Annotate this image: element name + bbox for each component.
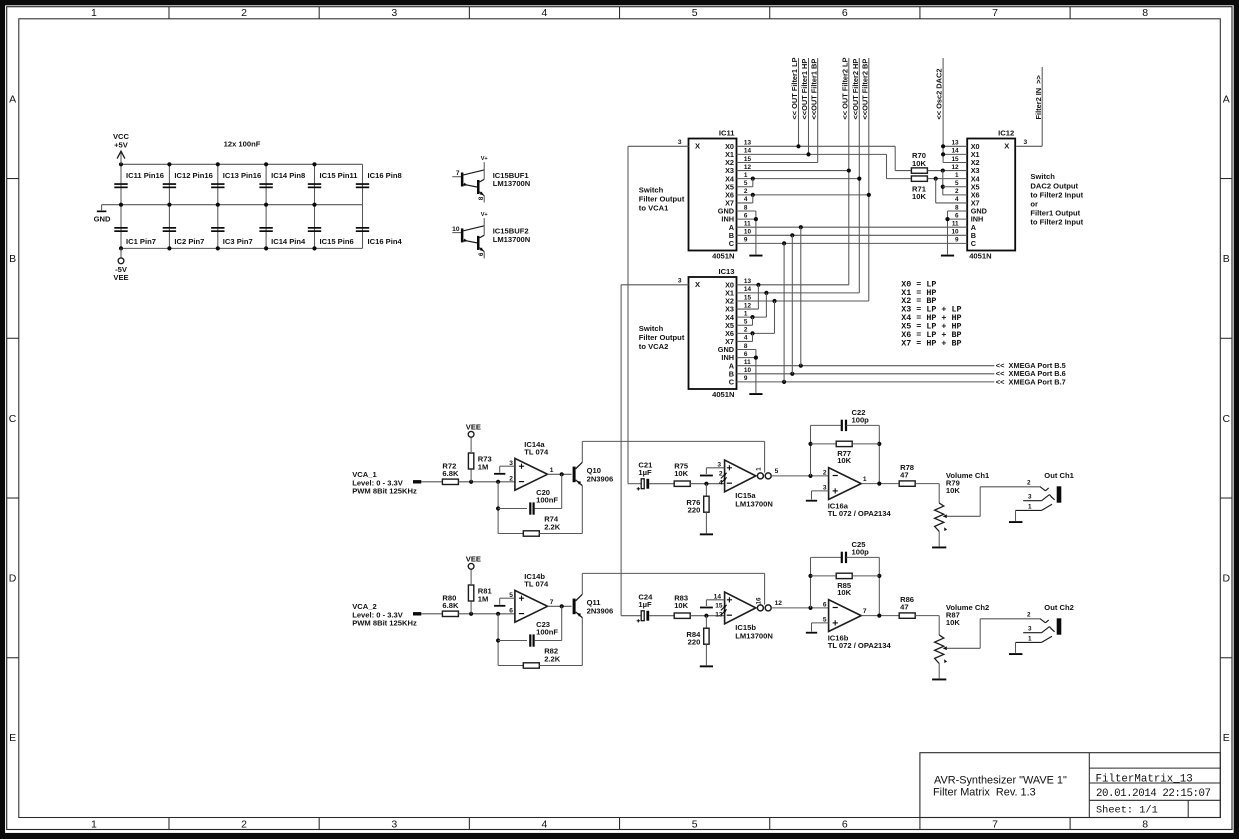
svg-text:to Filter2 Input: to Filter2 Input (1030, 190, 1083, 199)
svg-text:X: X (1004, 141, 1009, 150)
svg-text:2N3906: 2N3906 (587, 475, 614, 484)
svg-text:12x 100nF: 12x 100nF (224, 140, 261, 149)
svg-text:5: 5 (955, 180, 959, 187)
svg-text:FilterMatrix_13: FilterMatrix_13 (1096, 773, 1193, 785)
svg-text:IC15 Pin11: IC15 Pin11 (320, 171, 359, 180)
svg-text:IC14 Pin4: IC14 Pin4 (271, 237, 306, 246)
svg-text:LM13700N: LM13700N (493, 179, 531, 188)
svg-text:12: 12 (744, 164, 752, 171)
svg-text:IC12 Pin16: IC12 Pin16 (174, 171, 212, 180)
svg-text:10K: 10K (674, 601, 688, 610)
svg-text:10K: 10K (946, 618, 960, 627)
svg-text:GND: GND (94, 214, 111, 223)
svg-text:C: C (971, 239, 977, 248)
svg-text:Filter Output: Filter Output (639, 194, 685, 203)
svg-text:C: C (9, 413, 17, 425)
svg-text:6: 6 (823, 601, 827, 608)
svg-text:or: or (1030, 200, 1038, 209)
svg-text:10: 10 (744, 367, 752, 374)
svg-text:12: 12 (744, 302, 752, 309)
svg-text:to VCA1: to VCA1 (639, 203, 669, 212)
svg-text:C: C (729, 377, 735, 386)
svg-text:10K: 10K (912, 159, 926, 168)
svg-text:100p: 100p (852, 547, 870, 556)
svg-text:13: 13 (951, 140, 959, 147)
svg-text:8: 8 (1142, 7, 1148, 19)
svg-text:1: 1 (755, 467, 762, 471)
svg-text:10K: 10K (946, 486, 960, 495)
svg-text:IC13: IC13 (718, 267, 734, 276)
svg-text:10K: 10K (837, 456, 851, 465)
svg-text:VEE: VEE (113, 273, 128, 282)
svg-text:IC1 Pin7: IC1 Pin7 (126, 237, 156, 246)
svg-text:VEE: VEE (466, 423, 481, 432)
svg-text:10K: 10K (674, 469, 688, 478)
svg-text:1: 1 (1028, 635, 1032, 642)
svg-text:8: 8 (744, 343, 748, 350)
svg-text:Filter Output: Filter Output (639, 333, 685, 342)
svg-text:2.2K: 2.2K (544, 654, 561, 663)
svg-text:8: 8 (1142, 819, 1148, 831)
svg-text:13: 13 (744, 140, 752, 147)
svg-text:10: 10 (951, 229, 959, 236)
svg-text:13: 13 (744, 278, 752, 285)
svg-text:11: 11 (744, 359, 751, 366)
svg-text:12: 12 (775, 600, 783, 607)
svg-text:1: 1 (550, 467, 554, 474)
svg-text:3: 3 (1028, 494, 1032, 501)
svg-text:6: 6 (955, 212, 959, 219)
svg-text:5: 5 (775, 468, 779, 475)
svg-text:8: 8 (477, 197, 484, 201)
svg-text:X7 = HP + BP: X7 = HP + BP (901, 339, 961, 349)
svg-text:3: 3 (391, 819, 397, 831)
svg-text:<<OUT Filter1 HP: <<OUT Filter1 HP (800, 59, 809, 120)
svg-text:7: 7 (992, 819, 998, 831)
svg-text:+5V: +5V (114, 140, 129, 149)
svg-text:12: 12 (951, 164, 959, 171)
svg-text:1: 1 (744, 172, 748, 179)
svg-text:47: 47 (900, 602, 908, 611)
svg-text:3: 3 (678, 278, 682, 285)
svg-text:3: 3 (1028, 626, 1032, 633)
svg-text:2: 2 (241, 819, 247, 831)
svg-text:14: 14 (951, 148, 959, 155)
svg-text:100p: 100p (852, 415, 870, 424)
svg-text:2: 2 (509, 475, 513, 482)
svg-text:6.8K: 6.8K (442, 469, 459, 478)
svg-text:6.8K: 6.8K (442, 601, 459, 610)
svg-text:5: 5 (744, 319, 748, 326)
svg-text:A: A (9, 93, 16, 105)
svg-text:<< Osc2 DAC2: << Osc2 DAC2 (935, 69, 944, 120)
svg-text:1: 1 (744, 310, 748, 317)
svg-text:TL 074: TL 074 (524, 580, 549, 589)
svg-text:A: A (1223, 93, 1230, 105)
svg-text:B: B (1223, 253, 1230, 265)
svg-text:10K: 10K (837, 588, 851, 597)
svg-text:Switch: Switch (639, 324, 664, 333)
svg-text:4051N: 4051N (712, 390, 734, 399)
svg-text:IC11: IC11 (719, 128, 735, 137)
svg-text:IC16 Pin8: IC16 Pin8 (368, 171, 402, 180)
svg-text:X: X (695, 280, 700, 289)
svg-text:E: E (9, 732, 16, 744)
svg-text:<<OUT Filter2 HP: <<OUT Filter2 HP (851, 59, 860, 120)
svg-text:Out Ch2: Out Ch2 (1044, 603, 1074, 612)
svg-text:4: 4 (542, 7, 548, 19)
svg-text:7: 7 (992, 7, 998, 19)
svg-text:4: 4 (744, 196, 748, 203)
svg-text:9: 9 (955, 237, 959, 244)
svg-text:Filter2 IN >>: Filter2 IN >> (1034, 74, 1043, 119)
svg-text:1M: 1M (478, 594, 489, 603)
svg-text:1: 1 (91, 7, 97, 19)
svg-text:AVR-Synthesizer "WAVE 1": AVR-Synthesizer "WAVE 1" (934, 775, 1067, 787)
svg-text:1µF: 1µF (638, 600, 652, 609)
svg-text:TL 074: TL 074 (524, 448, 549, 457)
svg-text:IC13 Pin16: IC13 Pin16 (223, 171, 261, 180)
svg-text:6: 6 (744, 351, 748, 358)
svg-text:2.2K: 2.2K (544, 522, 561, 531)
svg-text:LM13700N: LM13700N (735, 499, 773, 508)
svg-text:<<OUT Filter2 BP: <<OUT Filter2 BP (860, 59, 869, 120)
svg-text:Switch: Switch (639, 186, 664, 195)
svg-text:220: 220 (688, 638, 701, 647)
svg-text:Switch: Switch (1030, 172, 1055, 181)
svg-text:LM13700N: LM13700N (735, 631, 773, 640)
svg-text:IC12: IC12 (998, 128, 1014, 137)
svg-text:E: E (1223, 732, 1230, 744)
svg-text:PWM 8Bit 125KHz: PWM 8Bit 125KHz (352, 487, 417, 496)
svg-text:PWM 8Bit 125KHz: PWM 8Bit 125KHz (352, 619, 417, 628)
svg-text:15: 15 (715, 602, 723, 609)
svg-text:B: B (9, 253, 16, 265)
svg-text:3: 3 (717, 461, 721, 468)
svg-text:1: 1 (955, 172, 959, 179)
svg-text:C: C (729, 239, 735, 248)
svg-text:16: 16 (755, 597, 762, 604)
svg-text:LM13700N: LM13700N (493, 235, 531, 244)
svg-text:IC15 Pin6: IC15 Pin6 (320, 237, 354, 246)
svg-text:2: 2 (823, 469, 827, 476)
svg-text:IC14 Pin8: IC14 Pin8 (271, 171, 305, 180)
svg-text:3: 3 (678, 139, 682, 146)
svg-text:6: 6 (842, 7, 848, 19)
svg-text:1µF: 1µF (638, 468, 652, 477)
svg-text:7: 7 (550, 599, 554, 606)
svg-text:14: 14 (714, 593, 722, 600)
svg-text:Filter Matrix Rev. 1.3: Filter Matrix Rev. 1.3 (933, 786, 1036, 798)
svg-text:47: 47 (900, 470, 908, 479)
svg-text:11: 11 (744, 221, 751, 228)
svg-text:15: 15 (744, 294, 752, 301)
svg-text:<< OUT Filter1 LP: << OUT Filter1 LP (790, 57, 799, 119)
svg-text:4: 4 (542, 819, 548, 831)
svg-text:2: 2 (1027, 611, 1031, 618)
svg-text:D: D (1223, 572, 1231, 584)
svg-text:8: 8 (955, 204, 959, 211)
svg-text:220: 220 (688, 506, 701, 515)
svg-text:11: 11 (952, 221, 959, 228)
svg-text:9: 9 (744, 237, 748, 244)
svg-text:6: 6 (842, 819, 848, 831)
svg-text:2: 2 (744, 188, 748, 195)
svg-text:1: 1 (91, 819, 97, 831)
svg-text:4: 4 (744, 335, 748, 342)
svg-text:Out Ch1: Out Ch1 (1044, 471, 1074, 480)
svg-text:9: 9 (477, 253, 484, 257)
svg-text:4: 4 (955, 196, 959, 203)
svg-text:7: 7 (863, 608, 867, 615)
svg-text:1M: 1M (478, 462, 489, 471)
svg-text:20.01.2014 22:15:07: 20.01.2014 22:15:07 (1096, 788, 1211, 800)
svg-text:3: 3 (1024, 139, 1028, 146)
svg-text:4051N: 4051N (969, 252, 991, 261)
svg-text:VEE: VEE (466, 555, 481, 564)
svg-text:IC11 Pin16: IC11 Pin16 (126, 171, 164, 180)
svg-text:V+: V+ (481, 156, 489, 162)
svg-text:9: 9 (744, 375, 748, 382)
svg-text:to VCA2: to VCA2 (639, 342, 669, 351)
svg-text:5: 5 (692, 7, 698, 19)
svg-text:5: 5 (744, 180, 748, 187)
svg-text:4051N: 4051N (712, 252, 734, 261)
svg-text:100nF: 100nF (536, 627, 558, 636)
svg-text:V+: V+ (481, 212, 489, 218)
svg-text:8: 8 (744, 204, 748, 211)
svg-text:10: 10 (452, 226, 460, 233)
svg-text:14: 14 (744, 148, 752, 155)
svg-text:<< XMEGA Port B.7: << XMEGA Port B.7 (996, 377, 1066, 386)
svg-text:6: 6 (509, 607, 513, 614)
svg-text:2N3906: 2N3906 (587, 607, 614, 616)
svg-text:10K: 10K (912, 192, 926, 201)
svg-text:<<OUT Filter1 BP: <<OUT Filter1 BP (809, 59, 818, 120)
svg-text:IC2 Pin7: IC2 Pin7 (174, 237, 204, 246)
svg-text:Sheet: 1/1: Sheet: 1/1 (1096, 805, 1158, 817)
svg-text:TL 072 / OPA2134: TL 072 / OPA2134 (828, 641, 892, 650)
svg-text:1: 1 (1028, 503, 1032, 510)
svg-text:3: 3 (391, 7, 397, 19)
svg-text:2: 2 (744, 327, 748, 334)
svg-text:IC3 Pin7: IC3 Pin7 (223, 237, 253, 246)
svg-text:2: 2 (241, 7, 247, 19)
svg-text:<< OUT Filter2 LP: << OUT Filter2 LP (840, 57, 849, 119)
svg-text:2: 2 (955, 188, 959, 195)
svg-text:7: 7 (456, 170, 460, 177)
svg-text:C: C (1223, 413, 1231, 425)
svg-text:X: X (695, 141, 700, 150)
svg-text:15: 15 (744, 156, 752, 163)
svg-text:10: 10 (744, 229, 752, 236)
svg-text:TL 072 / OPA2134: TL 072 / OPA2134 (828, 509, 892, 518)
svg-text:1: 1 (863, 476, 867, 483)
svg-text:6: 6 (744, 212, 748, 219)
svg-text:to Filter2 Input: to Filter2 Input (1030, 218, 1083, 227)
svg-text:IC16 Pin4: IC16 Pin4 (368, 237, 403, 246)
svg-text:100nF: 100nF (536, 495, 558, 504)
svg-text:DAC2 Output: DAC2 Output (1030, 181, 1078, 190)
svg-text:Filter1 Output: Filter1 Output (1030, 209, 1080, 218)
svg-text:15: 15 (951, 156, 959, 163)
svg-text:5: 5 (692, 819, 698, 831)
svg-text:D: D (9, 572, 17, 584)
svg-text:14: 14 (744, 286, 752, 293)
svg-text:2: 2 (1027, 479, 1031, 486)
